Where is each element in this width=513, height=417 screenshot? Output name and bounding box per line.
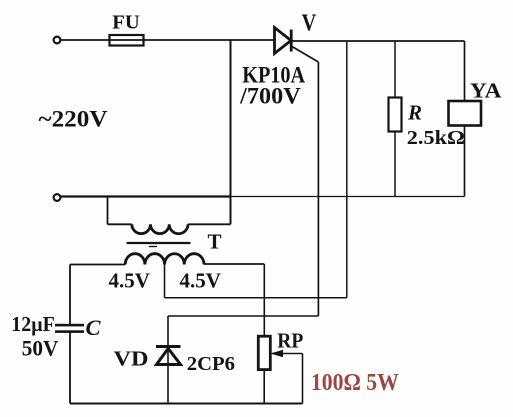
svg-text:VD: VD [114, 347, 149, 371]
svg-text:T: T [208, 230, 222, 254]
svg-text:100Ω 5W: 100Ω 5W [311, 370, 399, 396]
svg-text:2.5kΩ: 2.5kΩ [407, 127, 465, 149]
svg-text:FU: FU [112, 13, 140, 34]
svg-text:50V: 50V [22, 335, 59, 360]
svg-text:R: R [407, 101, 422, 125]
svg-text:4.5V: 4.5V [109, 269, 150, 293]
svg-text:~220V: ~220V [39, 107, 108, 132]
svg-text:/700V: /700V [239, 83, 301, 109]
svg-text:YA: YA [470, 78, 502, 102]
svg-text:C: C [86, 315, 102, 340]
svg-text:4.5V: 4.5V [180, 269, 221, 293]
svg-text:12μF: 12μF [11, 312, 55, 336]
svg-text:V: V [302, 11, 317, 37]
svg-text:RP: RP [277, 329, 303, 353]
svg-text:2CP6: 2CP6 [187, 354, 235, 375]
